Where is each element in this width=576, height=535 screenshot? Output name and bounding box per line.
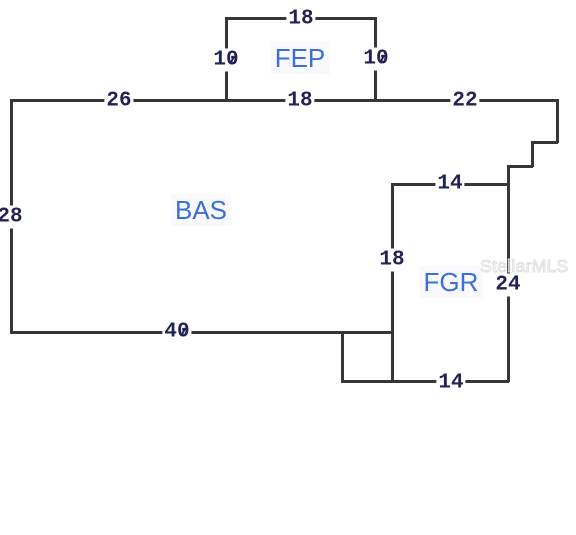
node watermark StellarMLS: [480, 256, 569, 277]
node dimension 40 bottom wall: [162, 321, 191, 344]
node dimension 18 FGR left: [377, 249, 406, 272]
wire: bottom wall BAS: [10, 331, 393, 334]
node dimension 14 FGR top: [435, 173, 464, 196]
node dimension 24 FGR right: [493, 274, 522, 297]
wire: step 1 horizontal: [531, 141, 558, 144]
wire: main top wall: [10, 99, 558, 102]
node dimension 18 FEP bottom: [285, 90, 314, 113]
node room label BAS: [171, 194, 231, 226]
wire: FGR left wall: [391, 183, 394, 382]
node zero-slash on 10 right: [380, 55, 386, 64]
wire: FEP left wall: [225, 17, 228, 101]
node dimension 14 FGR bottom: [436, 372, 465, 395]
wire: FGR right wall: [507, 165, 510, 382]
node room label FEP: [271, 42, 330, 74]
wire: FEP top wall: [225, 17, 376, 20]
node dimension 18 FEP top: [286, 8, 315, 31]
node zero-slash on 10 left: [230, 56, 236, 65]
wire: FEP right wall: [374, 17, 377, 101]
node dimension 26 top wall: [104, 90, 133, 113]
node dimension 10 FEP right: [361, 48, 390, 71]
wire: FGR top wall: [391, 183, 509, 186]
node room label FGR: [420, 266, 483, 298]
node dimension 10 FEP left: [211, 49, 240, 72]
wire: left wall: [10, 99, 13, 333]
wire: step 1 vertical: [531, 141, 534, 167]
wire: bottom wall FGR: [341, 380, 509, 383]
node dimension 28 left wall: [0, 206, 25, 229]
node dimension 22 top wall right: [450, 90, 479, 113]
node zero-slash on 40: [181, 328, 187, 337]
wire: right wall upper: [556, 99, 559, 143]
wire: square notch left wall: [341, 331, 344, 382]
wire: step 2 horizontal: [507, 165, 533, 168]
